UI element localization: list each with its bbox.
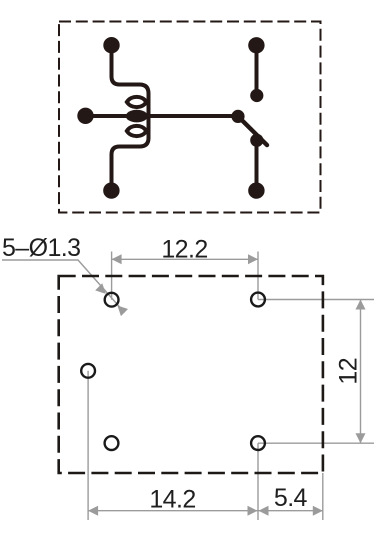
- svg-text:5.4: 5.4: [274, 484, 308, 512]
- svg-text:5–Ø1.3: 5–Ø1.3: [2, 234, 80, 262]
- svg-text:12.2: 12.2: [161, 236, 207, 264]
- svg-text:12: 12: [335, 358, 363, 385]
- svg-text:14.2: 14.2: [149, 486, 195, 514]
